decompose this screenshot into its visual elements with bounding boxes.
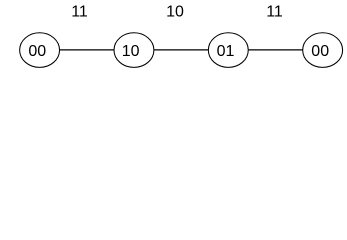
node state 00 (last) [303,33,343,68]
wire: edge from state 01 to state 00 [248,49,302,51]
node state 01 [208,33,248,68]
svg-text:10: 10 [166,4,184,21]
svg-text:00: 00 [28,43,46,60]
svg-text:00: 00 [311,43,329,60]
wire: edge from state 00 to state 10 [60,49,114,51]
svg-text:11: 11 [71,4,88,21]
wire: edge from state 10 to state 01 [154,49,208,51]
node state 10 [114,33,154,68]
svg-text:10: 10 [122,43,140,60]
svg-text:01: 01 [217,43,235,60]
svg-text:11: 11 [266,4,283,21]
node state 00 (first) [20,33,60,68]
